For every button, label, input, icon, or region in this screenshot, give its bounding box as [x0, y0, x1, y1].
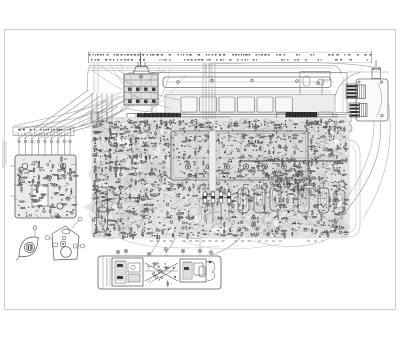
IF transformer core block: [209, 119, 221, 132]
PCB to amplifier wires: [150, 238, 240, 256]
bus wire: [240, 160, 346, 162]
component field upper left PCB: [92, 129, 171, 186]
dial scale strip: [88, 51, 372, 63]
right wiring arcs: [210, 62, 390, 228]
IF amplifier module board: [171, 131, 308, 180]
interstage wiring X: [145, 263, 178, 287]
bottom board callouts: [116, 248, 213, 256]
output transformer lamination bar: [277, 112, 339, 123]
component field lower left: [95, 185, 154, 240]
chassis front apron with cutouts: [152, 95, 347, 117]
PCB mottle shading: [84, 117, 352, 239]
driver transformer right block: [180, 259, 215, 282]
vertical resistor column: [203, 186, 231, 222]
left board pin row: [18, 136, 71, 156]
chassis bottom white boxes: [318, 112, 352, 133]
connector block upper: [346, 84, 366, 99]
board divider strip: [209, 131, 216, 191]
bottom amplifier board: [98, 256, 221, 289]
electrolytic capacitor row: [97, 182, 346, 232]
fine speckle layer: [94, 118, 348, 237]
PCB trace squiggles: [90, 117, 348, 239]
connector block lower: [349, 103, 367, 117]
dial pointer: [140, 53, 142, 67]
loose wires below board: [120, 238, 330, 249]
component field left strip: [91, 131, 100, 237]
tuning gang capacitor: [118, 62, 165, 105]
left mini dial scale: [13, 127, 74, 136]
right side speaker connector box: [335, 60, 388, 121]
rubber grommet eyelet: [17, 226, 39, 261]
component field top row: [93, 118, 345, 133]
cable bundle to dial: [203, 63, 215, 119]
dial cord wires: [87, 63, 341, 93]
tuner area spaghetti wires: [92, 63, 185, 115]
ferrite rod antenna coil: [127, 113, 230, 121]
output transformer left block: [107, 258, 143, 286]
component field IF module interior: [173, 133, 304, 179]
main PCB background wash: [92, 118, 360, 239]
component field right PCB: [309, 125, 350, 239]
harness bundle lower left: [75, 92, 135, 128]
chassis top rail: [152, 72, 389, 115]
solder dash row below board: [150, 241, 324, 242]
left tuner board: [10, 155, 79, 218]
component field lower center: [145, 180, 309, 240]
left wiring harness arcs: [3, 90, 130, 168]
pentagon mounting plate: [46, 217, 85, 260]
component field center dense patch: [256, 158, 316, 196]
chassis-to-board drop wires: [91, 93, 112, 124]
